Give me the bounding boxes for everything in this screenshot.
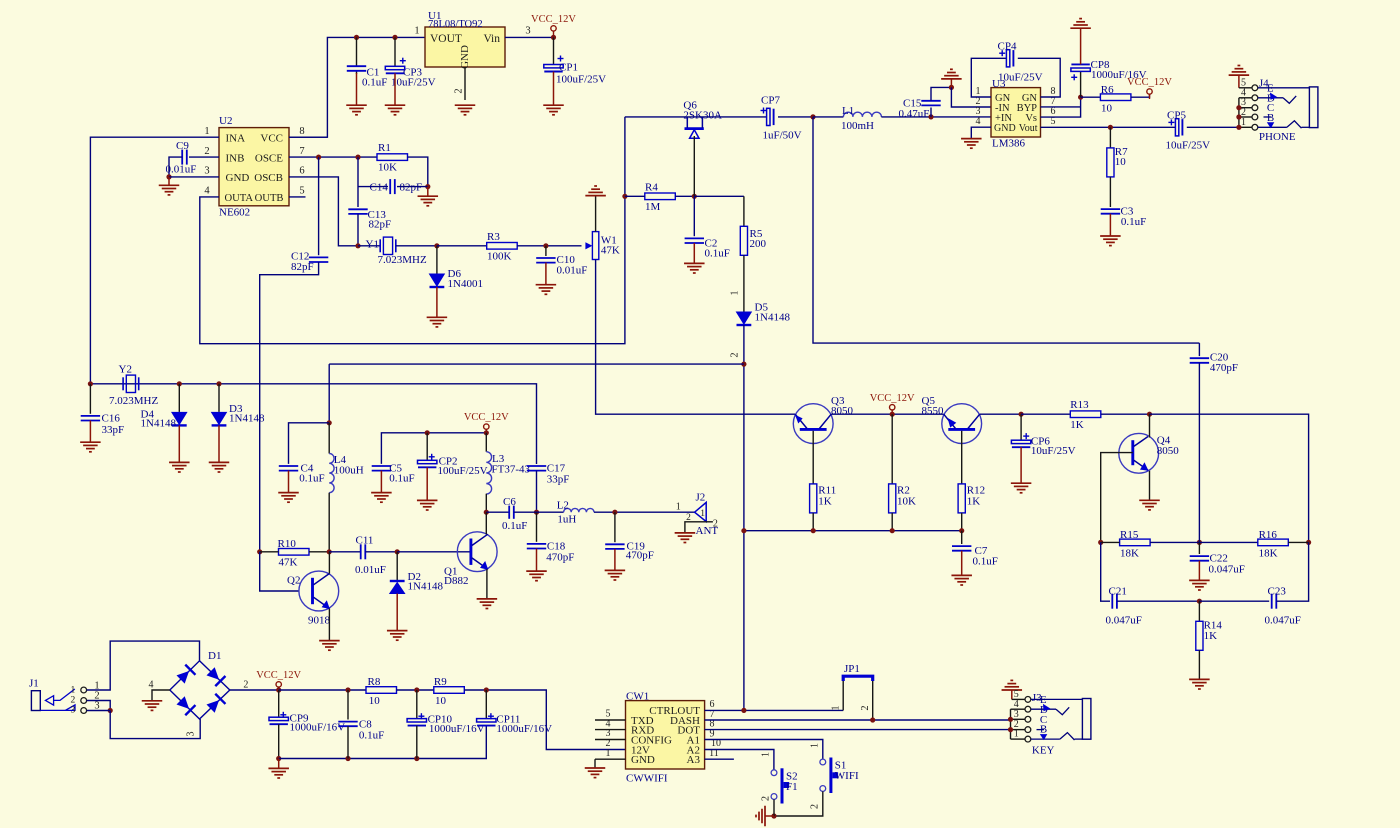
svg-text:1K: 1K — [818, 496, 832, 508]
svg-text:10uF/25V: 10uF/25V — [998, 72, 1043, 84]
svg-text:0.47uF: 0.47uF — [899, 108, 930, 120]
inductor L3 lead top — [485, 433, 487, 452]
svg-text:2SK30A: 2SK30A — [683, 110, 722, 122]
capacitor C22 lead — [1198, 542, 1200, 554]
svg-text:VCC_12V: VCC_12V — [531, 14, 576, 25]
potentiometer W1 — [585, 232, 620, 260]
wire D5 down to CW1.6 — [743, 325, 745, 710]
svg-text:1N4148: 1N4148 — [755, 312, 791, 324]
bridge rectifier D1 body — [170, 650, 230, 719]
transistor Q6 2SK30A — [683, 100, 722, 139]
ground CP9 — [268, 768, 289, 778]
svg-text:8050: 8050 — [831, 405, 854, 417]
svg-text:OUTB: OUTB — [255, 193, 284, 204]
junction — [392, 35, 397, 40]
ground U3.4 — [961, 139, 982, 149]
svg-text:1: 1 — [676, 501, 681, 512]
junction — [425, 430, 430, 435]
wire C6 left — [486, 511, 509, 513]
resistor R5 lead — [743, 196, 745, 226]
svg-text:1uH: 1uH — [557, 513, 576, 525]
diode D4 — [141, 409, 187, 430]
wire bridge minus — [152, 690, 170, 701]
svg-text:ANT: ANT — [696, 525, 719, 537]
power VCC_12V (R6) — [1127, 77, 1172, 99]
ground CP6 — [1011, 483, 1032, 493]
junction — [1306, 540, 1311, 545]
ground C7 — [951, 575, 972, 585]
svg-text:C6: C6 — [503, 496, 516, 508]
capacitor CP5 — [1166, 110, 1211, 152]
svg-text:10uF/25V: 10uF/25V — [1166, 140, 1211, 152]
resistor R12 — [958, 484, 985, 513]
junction — [88, 381, 93, 386]
inductor L4 lead top — [328, 423, 330, 454]
svg-text:R8: R8 — [368, 676, 381, 688]
capacitor CP11 lead — [485, 690, 487, 719]
svg-text:R13: R13 — [1070, 399, 1089, 411]
capacitor CP10 — [407, 713, 484, 735]
IC U2 NE602 — [204, 115, 304, 219]
wire C14 right — [397, 186, 428, 188]
svg-text:1: 1 — [730, 291, 741, 296]
capacitor C11 — [355, 535, 386, 577]
junction — [395, 549, 400, 554]
wire CP5 right to J4 — [1187, 126, 1239, 128]
wire bottom AC — [110, 711, 200, 739]
wire CP8 bottom lead — [1080, 72, 1082, 97]
svg-text:Vout: Vout — [1019, 123, 1038, 134]
capacitor C8 — [338, 719, 384, 742]
wire C20 to bus — [1198, 363, 1200, 543]
ground J3.5 (inverted) — [1002, 680, 1023, 690]
wire C9 to gnd node — [169, 157, 182, 177]
svg-text:4: 4 — [149, 680, 154, 691]
ground J2 — [675, 533, 696, 543]
svg-text:1: 1 — [700, 509, 705, 519]
ground C22 — [1189, 580, 1210, 590]
wire D6 to R3 — [437, 245, 487, 247]
wire W1 top to gnd — [595, 196, 597, 232]
svg-text:10K: 10K — [897, 496, 916, 508]
ground C2 — [684, 263, 705, 273]
capacitor C19 lead — [614, 512, 616, 542]
label 2 — [243, 680, 248, 691]
capacitor C22 — [1190, 553, 1245, 576]
wire to U3.2 — [951, 87, 991, 107]
svg-text:Q2: Q2 — [287, 575, 300, 587]
capacitor CP4 — [998, 41, 1043, 84]
resistor R2 lead — [891, 414, 893, 484]
wire U2.6 OSCB — [289, 177, 358, 246]
ground C10 — [536, 285, 557, 295]
svg-text:C11: C11 — [356, 535, 374, 547]
svg-text:1: 1 — [71, 685, 76, 695]
ground C4 — [278, 493, 299, 503]
wire Y2 net — [90, 384, 536, 464]
resistor R14 — [1196, 620, 1223, 651]
svg-text:200: 200 — [750, 238, 767, 250]
resistor R11 — [810, 484, 837, 513]
junction — [355, 155, 360, 160]
wire base to Q1 — [397, 551, 470, 553]
capacitor C4 — [279, 463, 325, 485]
wire L2 left — [537, 511, 564, 513]
capacitor CP3 lead — [394, 37, 396, 66]
wire bridge plus to VCC — [230, 689, 279, 691]
svg-text:L1: L1 — [842, 105, 854, 117]
JP1 pin1 lead — [831, 681, 844, 711]
svg-text:U2: U2 — [219, 115, 232, 127]
wire CP9 gnd stub — [278, 759, 280, 769]
svg-text:2: 2 — [454, 88, 465, 93]
svg-text:C21: C21 — [1109, 586, 1127, 598]
transistor Q5 8550 — [922, 395, 982, 444]
svg-text:R9: R9 — [434, 676, 447, 688]
ground CW1 — [585, 768, 606, 778]
capacitor C16 lead — [89, 384, 91, 414]
ground CP8 (inverted) — [1070, 19, 1091, 29]
svg-text:VCC_12V: VCC_12V — [870, 393, 915, 404]
svg-text:2: 2 — [761, 796, 772, 801]
junction — [414, 687, 419, 692]
capacitor CP6 — [1011, 433, 1075, 457]
wire CW1.10 A2 — [705, 750, 774, 770]
pin labels D5 — [730, 291, 741, 358]
svg-text:OSCE: OSCE — [255, 152, 283, 164]
wire W1 bottom to Q3 — [596, 260, 796, 415]
IC U3 LM386 — [976, 78, 1056, 150]
svg-text:1: 1 — [414, 26, 419, 37]
wire Q1 emitter — [486, 569, 488, 599]
ground Q1 — [477, 599, 498, 609]
svg-text:PHONE: PHONE — [1259, 131, 1296, 143]
svg-text:1N4001: 1N4001 — [448, 278, 483, 290]
diode D5 — [737, 302, 791, 326]
junction — [484, 430, 489, 435]
svg-text:3: 3 — [525, 26, 530, 37]
capacitor C17 — [527, 463, 570, 486]
resistor R14 lead — [1198, 601, 1200, 621]
wire Q5 to CP6 — [980, 413, 1021, 415]
ground CP2 — [417, 500, 438, 510]
resistor R1 — [377, 142, 408, 174]
wire C19 gnd — [614, 549, 616, 570]
capacitor CP9 — [269, 712, 345, 734]
wire R13 left — [1021, 413, 1070, 415]
ground W1 (inverted) — [585, 186, 606, 196]
junction — [1147, 412, 1152, 417]
wire CP2 gnd — [426, 468, 428, 501]
svg-text:2: 2 — [71, 696, 76, 706]
resistor R15 — [1120, 529, 1151, 560]
wire D3 gnd — [218, 425, 220, 462]
switch S2 F1 — [761, 752, 798, 804]
inductor L4 — [329, 454, 364, 493]
svg-text:F1: F1 — [786, 781, 798, 793]
svg-text:OUTA: OUTA — [225, 193, 254, 204]
svg-text:INB: INB — [226, 152, 245, 164]
wire U1.1 to U2.8 net — [289, 37, 425, 137]
svg-text:0.1uF: 0.1uF — [359, 730, 384, 742]
svg-text:D882: D882 — [444, 575, 468, 587]
svg-text:C9: C9 — [176, 140, 189, 152]
power VCC_12V (D1) — [256, 670, 301, 692]
ground C3 — [1100, 236, 1121, 246]
bridge diode D1d — [206, 694, 225, 713]
resistor R2 — [889, 484, 916, 513]
wire C16 gnd — [89, 421, 91, 443]
wire U2.5 stub — [289, 196, 306, 198]
wire U3.7 BYP — [1041, 106, 1081, 108]
junction — [741, 528, 746, 533]
wire Q6 gate lead — [693, 136, 695, 196]
svg-text:1000uF/16V: 1000uF/16V — [290, 721, 346, 733]
junction — [1008, 717, 1013, 722]
IC CW1 CWWIFI — [606, 690, 722, 784]
wire U2.7 OSCE — [289, 156, 377, 158]
ground C14 — [418, 196, 439, 206]
capacitor C13 — [348, 209, 391, 231]
wire OSCE down to C12 — [318, 157, 320, 255]
wire U2.1 INA — [90, 137, 219, 384]
capacitor C9 — [166, 140, 197, 176]
svg-text:R4: R4 — [645, 181, 658, 193]
label 3 rotated — [186, 732, 197, 737]
wire Q4 base — [1101, 453, 1133, 543]
wire R13 right — [1101, 413, 1150, 415]
ground CP1 — [543, 105, 564, 115]
inductor L3 — [486, 452, 530, 494]
JP1 pin2 lead — [860, 681, 873, 720]
junction — [166, 174, 171, 179]
wire Y1 right — [396, 245, 437, 247]
junction — [425, 184, 430, 189]
wire S1 bottom — [774, 791, 823, 816]
wire Y1 left — [358, 245, 380, 247]
svg-text:10: 10 — [369, 695, 381, 707]
svg-text:18K: 18K — [1120, 548, 1139, 560]
wire CW1.11 stub — [705, 758, 734, 760]
wire J3 gnd stub — [1011, 690, 1013, 699]
svg-text:10uF/25V: 10uF/25V — [391, 77, 436, 89]
wire C2 gnd — [693, 243, 695, 263]
capacitor CP1 lead — [553, 37, 555, 64]
power VCC_12V (L3) — [464, 412, 509, 434]
junction — [327, 549, 332, 554]
wire U2.2 to C9 — [189, 156, 219, 158]
svg-text:4: 4 — [976, 116, 981, 127]
wire Q1 collector — [485, 512, 487, 534]
svg-text:3: 3 — [186, 732, 197, 737]
wire gnd stub S1S2 — [765, 815, 774, 817]
wire CW1 gnd stub — [594, 759, 596, 768]
svg-text:Y1: Y1 — [366, 239, 379, 251]
svg-text:VCC_12V: VCC_12V — [256, 670, 301, 681]
diode D3 — [212, 403, 265, 425]
connector J1 — [29, 678, 100, 716]
resistor R4 — [645, 181, 676, 213]
wire R11 to bus — [812, 513, 814, 531]
label 4 — [149, 680, 154, 691]
svg-text:1K: 1K — [967, 496, 981, 508]
wire mid bus y364 — [329, 363, 744, 365]
wire R4 left — [625, 195, 645, 197]
junction — [1236, 125, 1241, 130]
svg-text:CP7: CP7 — [761, 95, 780, 107]
svg-text:Y2: Y2 — [119, 364, 132, 376]
ground C9/U2.3 — [159, 185, 180, 195]
svg-text:R3: R3 — [487, 231, 500, 243]
svg-text:B: B — [1267, 112, 1274, 124]
svg-text:82pF: 82pF — [369, 219, 392, 231]
wire CW1.7 DASH — [705, 719, 1011, 721]
wire rail to C20 — [813, 117, 1199, 343]
wire CP1-gnd — [553, 72, 555, 105]
capacitor CP9 lead — [278, 690, 280, 717]
ground C5 — [371, 493, 392, 503]
junction — [354, 35, 359, 40]
svg-text:1000uF/16V: 1000uF/16V — [496, 723, 552, 735]
wire R16 right lead — [1288, 541, 1308, 543]
svg-text:J2: J2 — [696, 491, 706, 503]
wire gnd bus — [279, 726, 487, 758]
junction — [551, 35, 556, 40]
svg-text:0.1uF: 0.1uF — [502, 520, 527, 532]
junction — [949, 85, 954, 90]
svg-text:0.047uF: 0.047uF — [1106, 615, 1142, 627]
svg-text:33pF: 33pF — [547, 474, 570, 486]
resistor R9 — [434, 676, 465, 707]
svg-text:GND: GND — [631, 754, 655, 766]
capacitor C1 plates — [347, 66, 388, 88]
capacitor C18 — [527, 541, 575, 564]
wire loop left — [1101, 542, 1110, 601]
ground R14 — [1189, 679, 1210, 689]
wire C14 left — [358, 186, 388, 188]
capacitor C15 — [899, 98, 941, 121]
connector J3 wiring — [1011, 699, 1026, 739]
svg-text:7: 7 — [299, 146, 304, 157]
wire J1.1 to bridge top — [87, 641, 200, 690]
svg-text:3: 3 — [204, 166, 209, 177]
junction — [484, 687, 489, 692]
svg-text:0.047uF: 0.047uF — [1265, 615, 1301, 627]
capacitor C18 lead — [536, 512, 538, 542]
junction — [345, 756, 350, 761]
wire C15 top — [931, 87, 951, 100]
wire R4 to R5 — [694, 195, 744, 197]
capacitor CP2 lead — [426, 433, 428, 460]
wire D4 gnd — [178, 425, 180, 462]
svg-text:1: 1 — [606, 748, 611, 759]
bridge diode D1a — [176, 665, 195, 684]
wire C12 bottom — [260, 262, 319, 552]
svg-text:GND: GND — [226, 172, 250, 184]
wire C18 gnd — [536, 549, 538, 571]
diode D3 lead — [218, 384, 220, 412]
IC U1 78L08 — [414, 10, 530, 69]
ground C19 — [605, 570, 626, 580]
wire C5 top loop — [381, 433, 486, 464]
switch S1 WIFI — [809, 743, 859, 809]
svg-text:FT37-43: FT37-43 — [492, 464, 531, 476]
wire J2.2 gnd path — [685, 522, 713, 533]
wire R15 left lead — [1101, 541, 1120, 543]
wire CP8 gnd stub — [1080, 29, 1082, 65]
bridge diode D1b — [206, 667, 225, 686]
resistor R12 lead — [961, 431, 963, 484]
wire L1 left — [813, 116, 843, 118]
wire CP3-gnd — [394, 73, 396, 105]
power VCC_12V (Q3/Q5) — [870, 393, 915, 415]
svg-text:CP4: CP4 — [998, 41, 1017, 53]
wire C21 to R14 — [1117, 600, 1199, 602]
svg-text:L2: L2 — [557, 500, 569, 512]
svg-text:33pF: 33pF — [102, 424, 125, 436]
resistor R10 — [278, 538, 310, 569]
junction — [276, 756, 281, 761]
transistor Q1 D882 — [444, 532, 497, 587]
inductor L3 lead bottom — [485, 494, 487, 513]
wire R1 to C14 — [408, 157, 428, 187]
wire to C4 — [289, 423, 330, 464]
wire U2.8 riser — [289, 136, 327, 138]
capacitor C10 — [536, 254, 587, 277]
wire U3.5 Vout — [1041, 126, 1176, 128]
svg-text:1: 1 — [1241, 117, 1246, 128]
connector J4 wiring — [1239, 88, 1252, 128]
junction — [1019, 412, 1024, 417]
wire D2 gnd — [396, 594, 398, 631]
wire gnd stub — [168, 177, 170, 185]
svg-text:100K: 100K — [487, 251, 512, 263]
svg-text:VOUT: VOUT — [430, 33, 462, 45]
wire C10 gnd — [545, 263, 547, 285]
ground CP3 — [385, 105, 406, 115]
wire U3.1 loop left — [971, 58, 1006, 97]
resistor R16 — [1258, 529, 1289, 560]
wire C17 to C6 node — [536, 471, 538, 513]
svg-text:18K: 18K — [1259, 548, 1278, 560]
wire R6 to VCC — [1131, 95, 1150, 98]
wire U3.4 gnd stub — [971, 127, 991, 138]
svg-text:4: 4 — [204, 185, 210, 196]
junction — [108, 708, 113, 713]
svg-text:1K: 1K — [1070, 419, 1084, 431]
junction — [870, 717, 875, 722]
capacitor C8 lead — [347, 690, 349, 720]
wire R6 left — [1081, 96, 1101, 98]
svg-text:1: 1 — [761, 752, 772, 757]
wire C14 gnd stub — [427, 187, 429, 196]
junction — [890, 412, 895, 417]
wire U2.4 OUTA to Q6 net — [200, 117, 625, 344]
junction — [612, 510, 617, 515]
svg-text:R1: R1 — [378, 142, 391, 154]
wire y364 drop to L4 node — [328, 364, 330, 423]
capacitor C8 lead2 — [347, 726, 349, 758]
wire CP4 right to U3.8 — [1018, 58, 1060, 97]
junction — [1098, 540, 1103, 545]
wire C1-gnd — [356, 73, 358, 105]
ground C16 — [80, 442, 101, 452]
svg-text:LM386: LM386 — [992, 138, 1026, 150]
connector J4 jack symbol — [1258, 77, 1318, 143]
svg-text:CWWIFI: CWWIFI — [626, 772, 668, 784]
svg-text:0.01uF: 0.01uF — [166, 164, 197, 176]
svg-text:1N4148: 1N4148 — [141, 418, 177, 430]
